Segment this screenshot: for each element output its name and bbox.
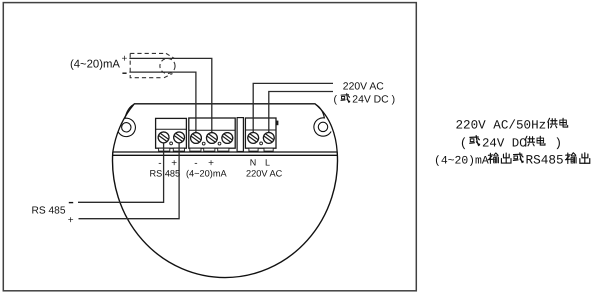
wire: (4~20)mA - loop to TB2 terminal - — [129, 72, 196, 137]
right mounting ear boss — [314, 105, 331, 137]
polarity - of mA loop — [122, 72, 126, 74]
TB2 screw terminal 2 (mA +) — [207, 133, 218, 144]
terminal shelf line — [113, 151, 338, 153]
svg-text:): ) — [555, 136, 563, 150]
TB2 screw terminal 3 (spare) — [222, 133, 233, 144]
svg-text:(: ( — [460, 136, 468, 150]
TB1 wire hole — [170, 142, 173, 145]
TB1 feet — [159, 148, 170, 151]
svg-text:+: + — [68, 215, 74, 226]
dashed corner tick top — [166, 53, 174, 58]
wire: mains N from TB3 to 220V AC label — [253, 83, 333, 137]
svg-text:220V AC: 220V AC — [343, 82, 385, 93]
wire: mains L from TB3 to 220V AC label — [269, 92, 333, 138]
svg-text:(4~20)mA: (4~20)mA — [70, 59, 120, 71]
TB3 wire hole — [260, 142, 263, 145]
svg-text:+: + — [208, 158, 214, 169]
terminal block TB3 (220V AC) body — [245, 118, 276, 148]
TB2 feet — [190, 148, 201, 151]
svg-text:RS 485: RS 485 — [150, 168, 181, 178]
TB3 feet — [249, 148, 258, 151]
TB3 screw terminal N — [248, 133, 259, 144]
right ear screw hole — [318, 122, 327, 131]
svg-text:(: ( — [334, 95, 338, 106]
housing top compartment outline — [113, 104, 337, 152]
svg-text:24V DC: 24V DC — [482, 136, 527, 150]
separator clamp between TB2 and TB3 — [237, 118, 243, 152]
svg-text:L: L — [265, 157, 270, 167]
dashed connector circle — [160, 58, 175, 73]
left mounting ear boss — [118, 105, 135, 137]
wire: (4~20)mA + loop to TB2 terminal + — [129, 58, 211, 137]
left ear screw hole — [122, 123, 131, 132]
housing band bottom line — [113, 154, 338, 156]
dashed cable sheath outline (4~20)mA loop — [130, 53, 165, 77]
polarity - of RS485 — [69, 202, 73, 204]
svg-text:24V DC ): 24V DC ) — [352, 95, 395, 106]
wire: RS485 + from TB1 down-left — [79, 140, 180, 219]
terminal block TB2 ((4~20)mA) body — [189, 118, 235, 148]
svg-text:N: N — [250, 157, 256, 167]
svg-text:+: + — [171, 158, 177, 169]
svg-text:(4~20)mA: (4~20)mA — [434, 154, 489, 167]
svg-text:-: - — [158, 158, 161, 169]
glyph or(huo) — [341, 94, 350, 103]
TB1 screw terminal 1 (RS485 -) — [158, 132, 169, 143]
svg-text:+: + — [122, 54, 128, 65]
TB2 wire hole 1 — [202, 142, 205, 145]
TB3 side tab — [276, 121, 278, 126]
svg-text:220V AC: 220V AC — [246, 168, 283, 178]
svg-text:220V AC/50Hz: 220V AC/50Hz — [456, 118, 547, 132]
wire: RS485 - from TB1 down-left — [78, 140, 164, 202]
redraw screw terminals over wires — [158, 132, 169, 143]
TB1 screw terminal 2 (RS485 +) — [174, 132, 185, 143]
svg-text:(4~20)mA: (4~20)mA — [186, 168, 227, 178]
svg-text:-: - — [194, 158, 197, 169]
svg-text:RS485: RS485 — [526, 152, 564, 167]
TB2 screw terminal 1 (mA -) — [191, 133, 202, 144]
transmitter housing dome (device body) — [113, 152, 338, 278]
TB2 wire hole 2 — [218, 142, 221, 145]
drawing frame border — [3, 3, 416, 291]
terminal block TB1 (RS485) body — [156, 118, 187, 148]
TB3 screw terminal L — [263, 133, 274, 144]
dashed corner tick bottom — [164, 74, 173, 78]
svg-text:RS 485: RS 485 — [32, 206, 66, 217]
